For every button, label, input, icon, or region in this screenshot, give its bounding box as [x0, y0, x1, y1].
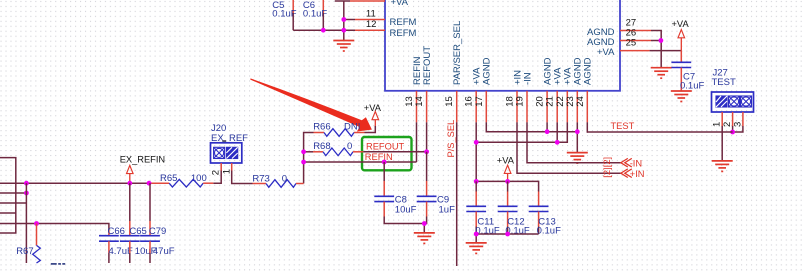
junction pin 12 node [341, 28, 346, 33]
svg-text:11: 11 [366, 8, 376, 19]
wire C5/C6 to pin12 node [293, 29, 355, 31]
svg-text:TEST: TEST [611, 121, 635, 131]
capacitor C79 [140, 183, 175, 263]
junction REFIN at C8 [382, 160, 387, 165]
wire V2 vertical [25, 183, 27, 263]
svg-text:EX_REFIN: EX_REFIN [120, 155, 165, 165]
junction +VA bus pin21 [555, 140, 560, 145]
svg-text:+VA: +VA [597, 47, 615, 58]
svg-text:24: 24 [575, 96, 586, 107]
wire pin13 to REFIN net [416, 122, 418, 162]
wire R66 left to node vertical [304, 133, 314, 184]
pin 12 REFM [355, 19, 417, 39]
bottom clipped marks [51, 263, 65, 265]
junction AGND bus pin23 [575, 129, 580, 134]
svg-text:+VA: +VA [364, 103, 382, 113]
+VA rail over C11-C13 [476, 181, 538, 191]
svg-text:R66: R66 [313, 122, 330, 133]
svg-text:10uF: 10uF [395, 204, 417, 215]
svg-text:+VA: +VA [391, 0, 409, 8]
pin 13 REFIN (bottom) [404, 56, 423, 122]
wire EX_REFIN horizontal [0, 182, 149, 184]
capacitor C6 (clipped at top) [303, 0, 327, 20]
wire C8/C9 bottom rail [384, 217, 426, 233]
svg-text:-IN: -IN [522, 72, 533, 85]
svg-text:25: 25 [626, 38, 637, 49]
junction at C6/pin12 wire [321, 28, 326, 33]
junction +VA bus pin16 [474, 140, 479, 145]
svg-text:1uF: 1uF [439, 204, 456, 215]
wire REFIN net (node to pin13) [304, 161, 417, 163]
wire +VA bus (pins 16/21/22) [476, 122, 567, 142]
svg-text:15: 15 [444, 96, 455, 107]
svg-text:+IN: +IN [630, 169, 645, 179]
resistor R68 [304, 141, 364, 156]
junction node at R68 left [301, 149, 306, 154]
wire J27 pin3 corner to TEST [733, 126, 743, 132]
svg-text:TEST: TEST [712, 77, 736, 88]
pin 11 REFM [355, 8, 417, 28]
wire J20 pin1 to R73 [232, 171, 253, 184]
capacitor C66 [99, 226, 133, 263]
capacitor C65 [120, 183, 157, 263]
resistor R65 [149, 173, 213, 187]
junction EX_REFIN at V2 [24, 181, 29, 186]
pin 21 +VA [545, 67, 564, 122]
wire pin20 to AGND bus [546, 122, 548, 131]
svg-text:+VA: +VA [497, 156, 515, 166]
left edge stub 4 [0, 212, 16, 214]
svg-text:+VA: +VA [672, 19, 690, 29]
svg-text:12: 12 [366, 19, 377, 30]
wire C5 down [292, 13, 294, 30]
svg-text:19: 19 [515, 96, 526, 107]
junction bottom rail C12 [505, 232, 510, 237]
junction EX_REFIN at flag/C65 [127, 181, 132, 186]
svg-text:0.1uF: 0.1uF [680, 81, 704, 92]
junction AGND bus pin20 [545, 129, 550, 134]
junction REFOUT at pin14/C9 [424, 149, 429, 154]
junction bottom rail C11 [474, 232, 479, 237]
svg-text:17: 17 [474, 96, 485, 107]
connector J20 EX_REF [210, 123, 248, 175]
capacitor C7 [671, 51, 704, 92]
wire pin21 to +VA bus [556, 122, 558, 142]
wire pin18 corner to +IN flag [517, 122, 621, 173]
svg-text:[2]: [2] [602, 157, 612, 167]
off-page flag +IN [602, 167, 645, 178]
off-page flag -IN [602, 157, 642, 168]
svg-text:REFOUT: REFOUT [422, 46, 433, 85]
pin 25 +VA [597, 38, 650, 59]
power symbol +VA (right) [672, 19, 690, 50]
junction EX_REFIN at R65/C79 [147, 181, 152, 186]
left edge stub 2 [0, 192, 26, 194]
wire pin24 corner to TEST [586, 122, 589, 132]
ground under J27 pin1 [712, 161, 733, 172]
ground right of IC [651, 68, 672, 79]
capacitor C8 [374, 162, 416, 217]
wire pin14 to REFOUT net [426, 122, 428, 152]
wire pin26 to vertical [651, 40, 661, 42]
wire to C66 (bottom AGND run) [0, 224, 109, 231]
pin 20 AGND [535, 57, 554, 122]
pin 15 PAR/SER_SEL [444, 21, 463, 123]
svg-text:14: 14 [414, 96, 425, 107]
svg-text:REFOUT: REFOUT [366, 142, 405, 152]
pin 17 AGND [474, 57, 493, 122]
wire J27 pin2 to TEST [732, 126, 734, 132]
svg-text:3: 3 [732, 122, 743, 127]
wire pin25 to C7 column [650, 50, 682, 52]
resistor R66 DNI [313, 122, 364, 137]
wire pin27 corner down [651, 31, 661, 68]
wire pin23 to ground [576, 122, 578, 152]
capacitor C9 [417, 152, 455, 217]
svg-text:2: 2 [210, 170, 221, 175]
pin 19 -IN [515, 72, 534, 122]
ground under C11 [466, 243, 487, 254]
ground under C8/C9 [414, 233, 435, 244]
svg-text:AGND: AGND [583, 57, 594, 85]
junction rail at C11 [474, 179, 479, 184]
capacitor C5 (clipped at top) [272, 0, 296, 20]
green highlight box REFOUT/REFIN [362, 137, 412, 170]
wire C6 down [322, 13, 324, 30]
wire J20 pin2 to R65 [213, 171, 221, 184]
pin 24 AGND [575, 57, 594, 122]
svg-text:0: 0 [347, 141, 352, 152]
svg-text:R68: R68 [313, 141, 330, 152]
op-amp/ADC IC U1 (partial, clipped at top) [385, 0, 620, 91]
wire pin17 corner to AGND bus [486, 122, 577, 131]
ground under C7 [671, 91, 692, 102]
svg-text:P/S_SEL: P/S_SEL [446, 120, 456, 158]
junction REFIN at node [301, 160, 306, 165]
junction pin26 node [659, 38, 664, 43]
wire pin10 to +VA column [335, 0, 350, 2]
pin 18 +IN [505, 70, 524, 122]
svg-text:47uF: 47uF [153, 246, 175, 257]
AGND rail under C11-C13 [476, 234, 538, 243]
pin 23 AGND [565, 57, 584, 122]
junction R67 tap [34, 221, 39, 226]
EX_REFIN net flag [120, 155, 165, 184]
junction pin 11 node [341, 17, 346, 22]
svg-text:1: 1 [221, 169, 232, 174]
svg-text:0.1uF: 0.1uF [537, 226, 561, 237]
wire +VA to R66 [365, 126, 376, 133]
wire pin16 down to +VA rail [475, 122, 477, 181]
svg-text:-IN: -IN [630, 158, 642, 168]
connector J27 TEST [712, 67, 754, 127]
resistor R67 (vertical, clipped) [16, 224, 40, 264]
big red annotation arrow [250, 78, 372, 131]
svg-text:0.1uF: 0.1uF [475, 226, 499, 237]
svg-text:REFM: REFM [390, 28, 417, 39]
pin 10 +VA (left side of U1) [350, 0, 409, 8]
svg-text:R67: R67 [16, 246, 33, 257]
resistor R73 [252, 173, 303, 187]
svg-text:100: 100 [191, 173, 207, 184]
left edge stub 1 [0, 158, 16, 233]
junction C8/C9 ground tap [422, 221, 427, 226]
pin 22 +VA [555, 67, 574, 122]
junction stub2 at V2 [24, 191, 29, 196]
ground under pin23 [567, 153, 588, 164]
svg-text:REFIN: REFIN [365, 152, 393, 162]
wire junction to pin 11 [344, 19, 355, 21]
capacitor C12 [498, 181, 530, 236]
wire J27 pin1 to ground [721, 126, 723, 161]
svg-text:AGND: AGND [482, 57, 493, 85]
pin 27 AGND (right side) [587, 18, 651, 39]
capacitor C11 [466, 181, 500, 236]
power symbol +VA (middle) [497, 156, 515, 182]
wire REFOUT net (R68 to pin14/C9) [363, 151, 426, 153]
pin 14 REFOUT [414, 46, 433, 123]
power symbol +VA (above R66) [364, 103, 382, 126]
ground under C5/C6 node [333, 41, 354, 52]
wire +VA column vertical to ground [343, 1, 345, 41]
left edge stub 3 [0, 202, 26, 204]
svg-text:C79: C79 [149, 226, 166, 237]
svg-text:R73: R73 [252, 173, 269, 184]
capacitor C13 [529, 192, 561, 237]
svg-text:1: 1 [712, 122, 723, 127]
pin 26 AGND [587, 28, 651, 49]
wire pin19 corner to -IN flag [527, 122, 621, 162]
TEST net wire [587, 121, 732, 132]
svg-text:REFM: REFM [390, 17, 417, 28]
junction rail at C12/+VA [505, 179, 510, 184]
junction TEST at J27 pin2 [730, 130, 735, 135]
svg-text:[2]: [2] [602, 167, 612, 177]
pin 16 +VA [464, 67, 483, 122]
wire pin15 P/S_SEL net [446, 120, 457, 266]
svg-text:PAR/SER_SEL: PAR/SER_SEL [452, 21, 463, 85]
